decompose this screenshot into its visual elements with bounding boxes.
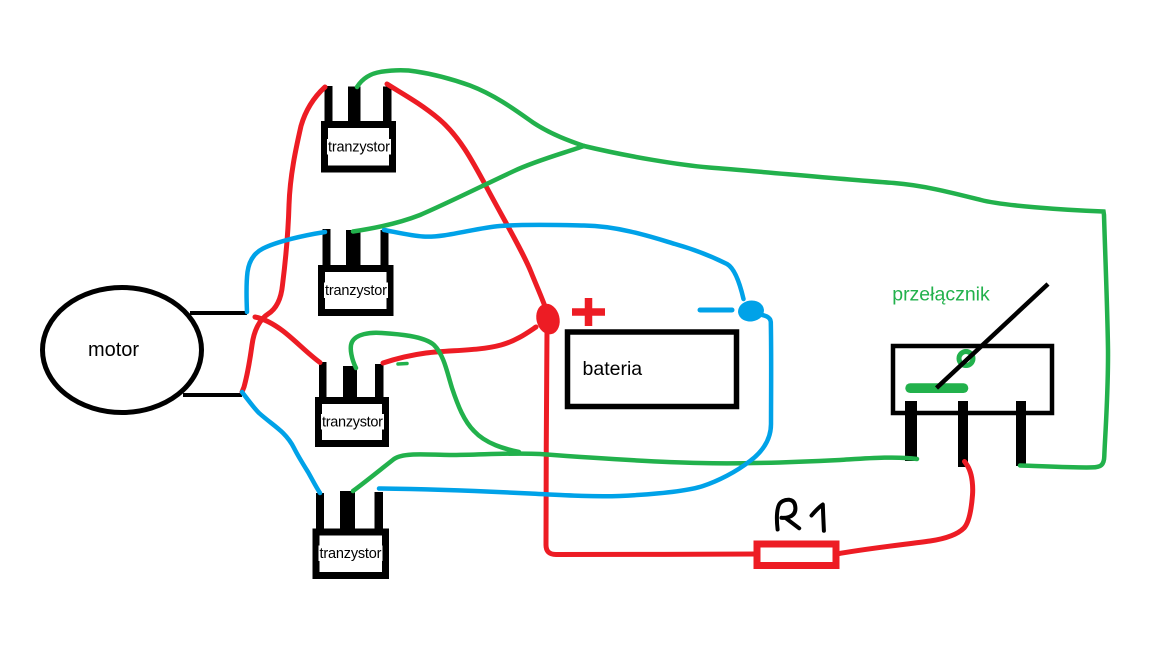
- wire red Q3.right to + node: [383, 327, 536, 363]
- node + terminal (red plus): [572, 298, 605, 326]
- wire green fork to switch pin 3 (long top wire): [584, 146, 1108, 467]
- switch S1 (przelacznik): [892, 284, 1052, 414]
- svg-text:tranzystor: tranzystor: [325, 283, 387, 299]
- wire blue motor bottom terminal to Q4.left: [242, 392, 320, 493]
- wire red + node to R1.left: [546, 330, 757, 555]
- svg-text:przełącznik: przełącznik: [892, 284, 990, 306]
- battery B1: [568, 332, 737, 407]
- svg-text:motor: motor: [88, 339, 139, 361]
- label R1 (handwritten): [777, 500, 824, 531]
- wire motor terminal top (black): [190, 311, 247, 315]
- motor M: [43, 288, 202, 413]
- svg-text:bateria: bateria: [583, 358, 643, 380]
- wire green Q4.middle to switch pin 1 (bottom wire): [353, 454, 917, 491]
- transistor Q1: [325, 86, 393, 169]
- switch pivot ring (green): [959, 352, 973, 366]
- wire red Q1.right to + node: [387, 84, 547, 312]
- wire red R1.right to switch pin 2: [837, 462, 973, 555]
- svg-text:tranzystor: tranzystor: [322, 415, 383, 431]
- wire green dash near Q3: [398, 362, 407, 366]
- svg-text:tranzystor: tranzystor: [328, 140, 390, 156]
- switch contact pad (green ellipse): [905, 383, 968, 393]
- wire blue - node down to Q4.right: [379, 314, 771, 496]
- switch pin 3: [1016, 401, 1026, 466]
- node blue junction blob (battery -): [737, 299, 766, 323]
- wire green Q1.middle to fork: [357, 70, 584, 146]
- svg-text:tranzystor: tranzystor: [320, 546, 382, 562]
- wire red Q1.left to motor bottom terminal: [242, 87, 325, 392]
- resistor R1: [757, 544, 836, 566]
- transistor Q4: [316, 491, 386, 576]
- wire blue motor top terminal to Q2.left: [247, 232, 326, 312]
- wire green fork to Q2.middle: [353, 146, 584, 232]
- wire red branch to Q3.left: [255, 317, 320, 363]
- wire blue Q2.right to - node: [384, 225, 744, 299]
- node red junction blob (battery +): [533, 301, 563, 337]
- wire motor terminal bottom (black): [183, 393, 242, 397]
- switch pin 2: [958, 401, 968, 467]
- node - terminal (blue minus): [700, 308, 732, 313]
- switch pin 1: [905, 401, 917, 461]
- wire green Q3.middle arc to bottom wire: [351, 333, 519, 452]
- transistor Q3: [319, 362, 386, 444]
- transistor Q2: [322, 229, 391, 313]
- switch lever: [937, 284, 1049, 388]
